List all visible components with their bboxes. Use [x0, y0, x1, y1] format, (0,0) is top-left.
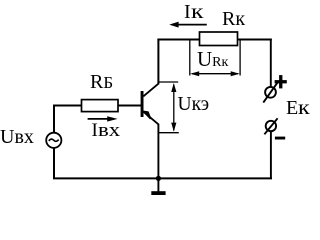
transistor VT1 emitter arrowhead (points toward base)	[144, 111, 151, 118]
dimension URк: left tick	[189, 40, 191, 76]
resistor Rб	[82, 100, 119, 112]
label Eк	[286, 97, 308, 120]
wire: top horizontal right of Rк	[238, 39, 272, 41]
junction node at emitter/bottom wire	[156, 176, 161, 181]
wire: top horizontal left of Rк	[157, 39, 199, 41]
polarity + of Ек terminal	[275, 75, 287, 88]
label Rк	[222, 8, 245, 31]
dimension Uкэ: top leader	[159, 81, 178, 83]
transistor VT1 base bar	[141, 91, 144, 117]
terminal - (circle with slash)	[264, 118, 277, 134]
label Uвх	[0, 126, 34, 149]
transistor VT1 collector line	[143, 84, 158, 97]
terminal + (circle with slash)	[263, 82, 277, 102]
wire: right vertical to + terminal	[270, 39, 272, 88]
ground stub	[157, 178, 159, 191]
wire: bottom horizontal	[53, 177, 272, 179]
transistor VT1 emitter line	[143, 112, 158, 125]
AC source G1	[46, 133, 61, 148]
label Iвх	[92, 120, 117, 142]
label Iк	[184, 1, 200, 24]
wire: collector riser	[157, 39, 159, 85]
wire: emitter riser down to bottom wire	[157, 124, 159, 179]
resistor Rк	[200, 32, 238, 46]
arrow Iвх (current arrow pointing right)	[88, 116, 118, 121]
label Rб	[90, 71, 113, 94]
ground bar	[151, 191, 165, 195]
label Uкэ	[178, 94, 210, 116]
dimension Uкэ: vertical double-headed arrow	[171, 83, 176, 132]
wire: left vertical above AC source	[53, 105, 55, 133]
label URк	[197, 47, 228, 72]
dimension Uкэ: bottom leader	[159, 132, 179, 134]
polarity - of Ек terminal	[275, 137, 285, 140]
dimension URк: double-headed arrow	[190, 71, 240, 76]
arrow Iк (current arrow pointing left)	[169, 22, 207, 28]
dimension URк: right tick	[239, 40, 241, 76]
wire: top-left horizontal from source to Rб	[53, 105, 82, 107]
wire: right vertical below - terminal	[270, 131, 272, 179]
wire: left vertical below AC source	[53, 148, 55, 178]
wire: Rб to transistor base	[118, 105, 142, 107]
